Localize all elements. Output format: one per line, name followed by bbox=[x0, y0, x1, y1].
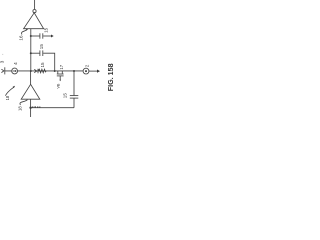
svg-text:15: 15 bbox=[40, 62, 45, 68]
svg-text:17: 17 bbox=[59, 64, 64, 69]
svg-text:15: 15 bbox=[39, 44, 44, 50]
svg-text:2: 2 bbox=[85, 64, 90, 67]
svg-text:18: 18 bbox=[5, 95, 10, 100]
svg-text:4: 4 bbox=[13, 62, 18, 65]
svg-text:15: 15 bbox=[63, 93, 68, 99]
svg-text:VB: VB bbox=[57, 83, 61, 89]
svg-text:3: 3 bbox=[0, 60, 5, 63]
svg-text:18: 18 bbox=[18, 106, 23, 111]
svg-text:16: 16 bbox=[18, 35, 23, 41]
svg-text:15: 15 bbox=[44, 27, 49, 33]
svg-text:FIG. 158: FIG. 158 bbox=[106, 63, 115, 91]
